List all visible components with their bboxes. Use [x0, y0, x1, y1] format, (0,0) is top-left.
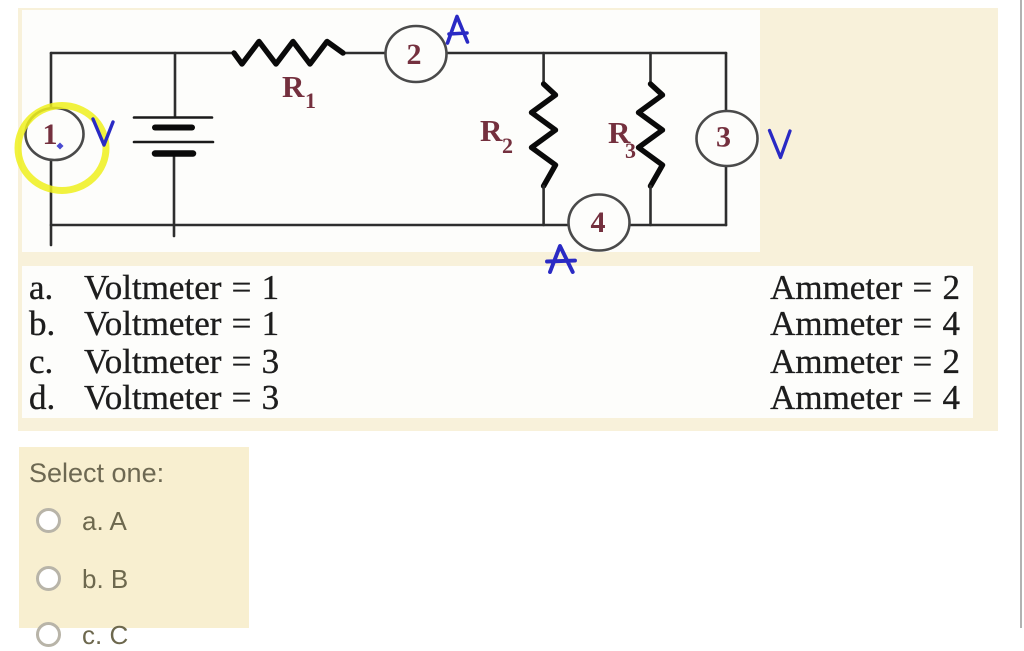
svg-text:2: 2	[407, 38, 422, 71]
option a ammeter	[770, 268, 960, 308]
option c letter	[29, 342, 53, 382]
radio b label	[82, 564, 128, 595]
select-one cream box	[19, 447, 249, 628]
radio c label partial	[82, 620, 128, 651]
option d letter	[29, 378, 55, 418]
meter V3 circle	[697, 111, 758, 166]
resistor R3 zigzag	[639, 84, 663, 186]
wire battery bottom stub	[173, 156, 176, 236]
option d voltmeter	[84, 378, 279, 418]
wire R3 branch top stub	[649, 53, 652, 84]
white options image box	[22, 266, 973, 418]
radio a label	[82, 506, 127, 537]
options text	[0, 0, 1024, 1]
meter V1 circle	[26, 108, 84, 160]
annotation yellow circle	[18, 106, 106, 191]
meter A4 circle	[569, 195, 630, 251]
resistor R2 zigzag	[532, 84, 556, 186]
wire top: R1 to meter2	[343, 52, 385, 55]
radio a	[36, 508, 61, 533]
meter A2 circle	[386, 26, 447, 82]
svg-text:R: R	[480, 113, 503, 148]
wire top: left corner to meter2	[51, 52, 234, 55]
annotation blue A at meter2	[448, 17, 468, 44]
battery plate long 2	[134, 141, 213, 144]
radio c partial	[36, 622, 61, 647]
cream question panel	[18, 8, 998, 431]
battery plate short thick 1	[155, 125, 192, 131]
annotation blue V at meter1	[93, 119, 113, 145]
wire left vertical	[50, 53, 53, 108]
svg-text:R: R	[282, 69, 305, 104]
resistor R1 zigzag	[234, 42, 343, 65]
radio b	[36, 566, 61, 591]
select one label	[29, 458, 164, 489]
wire R3 branch bottom stub	[649, 186, 652, 225]
wire right vertical bottom	[725, 166, 728, 225]
annotation blue diamond dot in meter1	[56, 142, 63, 149]
option c ammeter	[770, 342, 960, 382]
annotation blue A at meter4	[547, 246, 575, 272]
wire right vertical top	[725, 53, 728, 112]
wire bottom: left to meter4	[51, 224, 567, 227]
svg-text:1: 1	[305, 88, 316, 113]
battery plate short thick 2	[155, 150, 193, 157]
option b letter	[29, 304, 55, 344]
battery plate long top	[134, 116, 212, 119]
option a voltmeter	[84, 268, 279, 308]
option a letter	[29, 268, 53, 308]
option c voltmeter	[84, 342, 279, 382]
svg-text:4: 4	[591, 206, 606, 239]
annotation blue V at meter3	[770, 131, 791, 158]
white circuit image box	[22, 10, 760, 252]
option d ammeter	[770, 378, 960, 418]
svg-text:2: 2	[502, 133, 513, 158]
right scrollbar line	[1020, 0, 1022, 628]
option b voltmeter	[84, 304, 279, 344]
svg-text:1: 1	[43, 118, 58, 151]
wire R2 branch top stub	[542, 53, 545, 84]
svg-text:3: 3	[716, 121, 731, 154]
svg-text:3: 3	[625, 138, 636, 163]
wire bottom: meter4 to right corner	[628, 224, 726, 227]
wire R2 branch bottom stub	[542, 186, 545, 225]
wire left vertical lower	[50, 160, 53, 245]
option b ammeter	[770, 304, 960, 344]
wire top: meter2 to top-right corner	[447, 52, 726, 55]
wire battery top stub	[174, 53, 177, 116]
